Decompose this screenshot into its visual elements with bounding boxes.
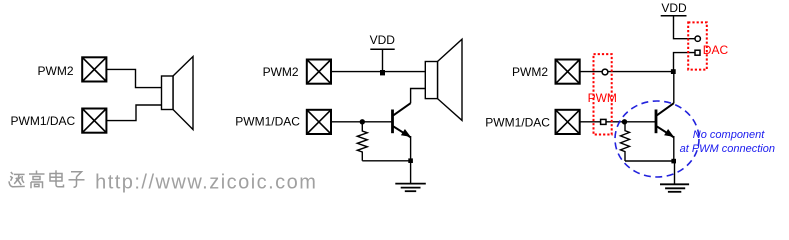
speaker LS2 (middle) bbox=[425, 39, 462, 120]
svg-text:No component: No component bbox=[693, 129, 765, 141]
svg-text:PWM2: PWM2 bbox=[263, 65, 299, 79]
pad PWM2 (right) bbox=[556, 60, 580, 84]
junction base/resistor (middle) bbox=[360, 119, 365, 124]
resistor R1 (middle) bbox=[357, 122, 367, 161]
pad PWM1/DAC (left) bbox=[82, 109, 106, 133]
speaker LS1 (left) bbox=[162, 57, 194, 130]
svg-text:DAC: DAC bbox=[703, 43, 729, 57]
svg-text:at PWM connection: at PWM connection bbox=[680, 143, 775, 155]
svg-text:VDD: VDD bbox=[661, 1, 687, 15]
junction emitter/ground (middle) bbox=[408, 158, 413, 163]
annotation box PWM (red dotted) bbox=[594, 54, 612, 134]
pad PWM1/DAC (middle) bbox=[307, 110, 331, 134]
svg-text:PWM1/DAC: PWM1/DAC bbox=[11, 114, 76, 128]
watermark char 电 bbox=[50, 170, 64, 187]
junction VDD node (middle) bbox=[380, 70, 385, 75]
wire PWM1/DAC to speaker lower (left) bbox=[106, 105, 161, 121]
ground (right) bbox=[660, 161, 689, 192]
junction emitter/ground (right) bbox=[671, 159, 676, 164]
svg-text:PWM2: PWM2 bbox=[38, 64, 74, 78]
wire resistor to emitter node (middle) bbox=[362, 160, 410, 162]
wire VDD to switch DAC upper (right) bbox=[674, 16, 696, 39]
pad PWM1/DAC (right) bbox=[556, 110, 580, 134]
wire emitter down (right) bbox=[673, 136, 675, 161]
svg-text:PWM2: PWM2 bbox=[512, 65, 548, 79]
terminal square on base wire (right) bbox=[601, 119, 606, 124]
wire base (right) bbox=[580, 121, 656, 123]
svg-text:PWM: PWM bbox=[588, 91, 617, 105]
power VDD (middle) bbox=[370, 33, 396, 72]
junction base/resistor (right) bbox=[622, 119, 627, 124]
switch DAC lower terminal bbox=[695, 50, 700, 55]
wire base (middle) bbox=[331, 121, 393, 123]
transistor Q1 (middle) bbox=[393, 103, 411, 137]
resistor R2 (right) bbox=[621, 122, 630, 161]
ground (middle) bbox=[395, 161, 426, 191]
svg-text:PWM1/DAC: PWM1/DAC bbox=[235, 115, 300, 129]
power VDD (right) bbox=[661, 1, 687, 16]
svg-text:VDD: VDD bbox=[370, 33, 396, 47]
pad PWM2 (left) bbox=[82, 57, 106, 81]
transistor Q2 (right) bbox=[656, 103, 674, 137]
switch DAC upper terminal bbox=[695, 36, 700, 41]
wire PWM2 to speaker upper (left) bbox=[106, 69, 161, 87]
wire emitter down (middle) bbox=[410, 136, 412, 161]
pad PWM2 (middle) bbox=[307, 60, 331, 84]
svg-text:http://www.zicoic.com: http://www.zicoic.com bbox=[95, 171, 316, 193]
svg-text:PWM1/DAC: PWM1/DAC bbox=[485, 115, 550, 129]
junction node A (right) bbox=[671, 69, 676, 74]
wire PWM2 to speaker (middle) bbox=[331, 71, 425, 73]
watermark char 高 bbox=[29, 171, 45, 189]
wire node A to collector (right) bbox=[673, 72, 675, 104]
wire resistor to emitter node (right) bbox=[625, 160, 674, 162]
watermark char 逐 bbox=[9, 172, 25, 187]
terminal circle on PWM2 wire (right) bbox=[602, 69, 608, 75]
wire switch DAC lower to node A (right) bbox=[674, 53, 696, 72]
wire collector to speaker (middle) bbox=[411, 89, 426, 104]
highlight ellipse (blue dashed) bbox=[615, 101, 699, 177]
watermark char 子 bbox=[69, 172, 85, 188]
annotation box DAC (red dotted) bbox=[688, 22, 707, 69]
wire PWM2 to node A (right) bbox=[580, 71, 674, 73]
